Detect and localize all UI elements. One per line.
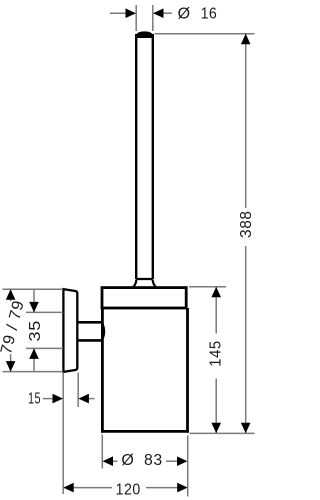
mount arm top edge bbox=[78, 321, 102, 324]
arrow 120 right bbox=[177, 483, 188, 493]
svg-text:83: 83 bbox=[144, 452, 163, 469]
glass body right edge bbox=[186, 308, 189, 433]
arrow 35 bottom bbox=[29, 348, 39, 359]
extension line top right (388) bbox=[155, 33, 255, 35]
arrow 15 left bbox=[53, 394, 64, 404]
mount arm bottom edge bbox=[78, 339, 102, 342]
arrow 388 top bbox=[241, 34, 251, 45]
handle top cap bbox=[135, 31, 154, 38]
mount arm ball end bbox=[103, 324, 104, 339]
arrow 35 top bbox=[29, 302, 39, 313]
svg-text:Ø: Ø bbox=[178, 5, 191, 22]
arrow dia83 left bbox=[103, 456, 114, 466]
arrow 79/79 bottom bbox=[6, 361, 16, 372]
79/79 dimension line lower segment bbox=[10, 354, 12, 372]
15 dimension leader right bbox=[88, 398, 95, 400]
388 dimension line lower segment bbox=[245, 246, 247, 433]
brush handle right side bbox=[152, 34, 154, 279]
dia16 dimension line right bbox=[162, 12, 172, 14]
extension line lid top right (145) bbox=[189, 286, 226, 288]
extension line left top (79/79) bbox=[3, 288, 64, 290]
svg-text:120: 120 bbox=[116, 481, 141, 498]
extension line left hole2 (35) bbox=[26, 347, 63, 349]
arrow dia16 right bbox=[153, 8, 164, 18]
collar right flare bbox=[153, 280, 156, 287]
wall plate bbox=[63, 289, 77, 372]
35 dimension leader bottom bbox=[33, 348, 35, 371]
extension line plate back (15/120) bbox=[62, 373, 64, 495]
388 dimension line upper segment bbox=[245, 34, 247, 208]
collar left flare bbox=[133, 280, 136, 287]
extension line glass right (dia83/120) bbox=[187, 436, 189, 497]
holder lid bbox=[102, 288, 186, 308]
arrow 145 top bbox=[211, 287, 221, 298]
15 dimension leader left bbox=[43, 398, 54, 400]
extension line bottom right bbox=[190, 432, 255, 434]
dia83 dimension line right segment bbox=[166, 460, 178, 462]
extension line left bottom (79/79) bbox=[3, 371, 64, 373]
arrow dia83 right bbox=[177, 456, 188, 466]
glass body bottom edge bbox=[101, 430, 189, 433]
extension line handle right (dia16) bbox=[152, 5, 154, 31]
handle joint line bbox=[136, 278, 153, 280]
arrow 15 right bbox=[78, 394, 89, 404]
arrow dia16 left bbox=[126, 8, 137, 18]
extension line plate front (15) bbox=[77, 373, 79, 408]
extension line left hole1 (35) bbox=[26, 311, 63, 313]
glass body left edge bbox=[101, 308, 104, 433]
arrow 120 left bbox=[63, 483, 73, 493]
svg-text:16: 16 bbox=[201, 5, 218, 22]
35 dimension leader top bbox=[33, 289, 35, 312]
145 dimension line upper segment bbox=[215, 287, 217, 334]
145 dimension line lower segment bbox=[215, 379, 217, 434]
120 dimension line left segment bbox=[73, 487, 112, 489]
svg-text:388: 388 bbox=[238, 210, 255, 238]
brush handle left side bbox=[135, 34, 137, 279]
dia83 dimension line left segment bbox=[112, 460, 118, 462]
extension line handle left (dia16) bbox=[135, 5, 137, 31]
svg-text:145: 145 bbox=[208, 340, 225, 367]
arrow 388 bottom bbox=[241, 423, 251, 434]
arrow 79/79 top bbox=[6, 289, 16, 300]
svg-text:35: 35 bbox=[27, 320, 44, 342]
79/79 dimension line upper segment bbox=[10, 289, 12, 301]
extension line glass left (dia83) bbox=[101, 435, 103, 469]
arrow 145 bottom bbox=[211, 423, 221, 434]
dia16 dimension line left bbox=[110, 12, 127, 14]
svg-text:Ø: Ø bbox=[121, 452, 134, 469]
120 dimension line right segment bbox=[146, 487, 178, 489]
svg-text:15: 15 bbox=[28, 391, 41, 408]
